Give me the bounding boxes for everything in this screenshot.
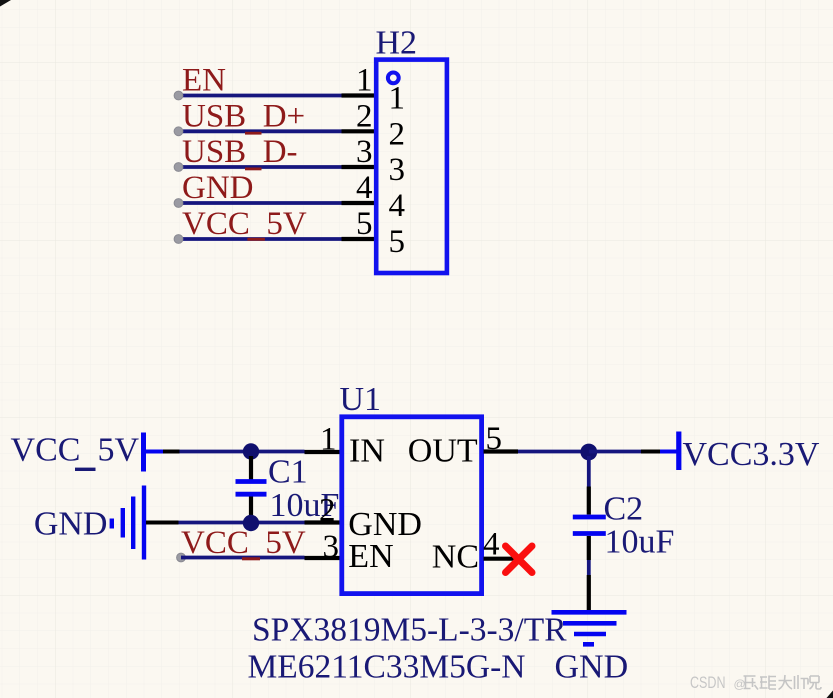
ground symbol bar1 (552, 610, 627, 615)
svg-text:NC: NC (432, 539, 479, 576)
power port GND left bar3 (131, 497, 135, 550)
pin U1-3 stub (305, 556, 342, 560)
watermark hanzi strokes (vector approximation) (744, 675, 822, 690)
no connect X on pin 4 (506, 546, 533, 573)
wire VCC_5V to junction (180, 450, 305, 454)
svg-text:3: 3 (323, 529, 340, 565)
pin 1 indicator circle (388, 73, 399, 84)
ground symbol bar3 (574, 632, 606, 637)
capacitor C2 top lead wire (587, 456, 591, 487)
power port VCC3.3V bar (676, 432, 681, 471)
svg-text:USB D-: USB D- (182, 134, 298, 170)
svg-text:2: 2 (389, 116, 406, 152)
svg-text:2: 2 (356, 98, 373, 134)
svg-text:GND: GND (182, 170, 254, 206)
wire OUT to junction (518, 450, 589, 454)
pin H2-5 stub (342, 237, 377, 241)
node dot USB_D- left (174, 163, 183, 172)
capacitor C2 plate bottom (573, 531, 606, 536)
svg-text:10uF: 10uF (605, 524, 675, 561)
svg-text:C1: C1 (268, 454, 308, 491)
corner wedge top-left (0, 0, 11, 7)
capacitor C1 plate top (236, 479, 267, 484)
svg-text:1: 1 (320, 422, 337, 458)
wire net GND top (178, 201, 342, 205)
ground symbol bar4 (583, 642, 594, 647)
wire EN net (181, 556, 305, 560)
svg-text:VCC 5V: VCC 5V (181, 525, 306, 561)
svg-text:SPX3819M5-L-3-3/TR: SPX3819M5-L-3-3/TR (252, 612, 567, 649)
pin U1-2 stub (305, 520, 342, 524)
pin H2-3 stub (342, 165, 377, 169)
svg-text:C2: C2 (604, 491, 644, 528)
connector H2 body (376, 60, 447, 273)
svg-text:EN: EN (182, 63, 226, 99)
svg-text:4: 4 (389, 188, 406, 224)
power port VCC3.3V stub (660, 450, 679, 454)
wire net USB_D+ (178, 129, 342, 133)
underscore dash VCC_5V top (247, 238, 265, 241)
svg-text:GND: GND (555, 649, 629, 686)
svg-text:ME6211C33M5G-N: ME6211C33M5G-N (248, 649, 526, 686)
svg-text:OUT: OUT (408, 432, 478, 469)
underscore dash USB_D- (245, 168, 262, 171)
capacitor C1 plate bottom (236, 492, 267, 497)
underscore dash USB_D+ (245, 132, 262, 135)
wire net VCC_5V top (178, 237, 342, 241)
capacitor C2 bottom lead black lower (587, 575, 591, 610)
pin U1-1 stub (305, 450, 342, 454)
svg-text:VCC3.3V: VCC3.3V (683, 436, 820, 473)
svg-text:VCC 5V: VCC 5V (182, 206, 307, 242)
capacitor C2 top lead black (587, 487, 591, 515)
svg-text:USB D+: USB D+ (182, 98, 305, 134)
underscore dash VCC_5V port (75, 468, 96, 471)
svg-text:1: 1 (356, 63, 373, 99)
capacitor C2 plate top (573, 515, 606, 520)
pin H2-2 stub (342, 129, 377, 133)
power port VCC_5V bar (141, 433, 146, 472)
svg-text:1: 1 (389, 81, 406, 117)
svg-text:GND: GND (34, 506, 108, 543)
svg-text:3: 3 (356, 134, 373, 170)
svg-text:2: 2 (319, 493, 336, 529)
wire VCC_5V black segment (163, 450, 180, 454)
power port VCC_5V stub (144, 450, 164, 454)
wire black segment before power port (641, 450, 660, 454)
capacitor C2 bottom lead black upper (587, 536, 591, 560)
power port GND left bar1 (110, 519, 114, 529)
pin U1-5 stub (484, 449, 519, 453)
junction node at C1 top (243, 443, 259, 459)
node dot USB_D+ left (174, 127, 183, 136)
svg-text:H2: H2 (376, 25, 418, 62)
wire junction to VCC3.3V (589, 450, 641, 454)
power port GND left bar2 (121, 508, 125, 538)
wire net EN (178, 94, 342, 98)
pin H2-1 stub (342, 93, 377, 97)
node dot EN wire left (177, 553, 186, 562)
svg-text:5: 5 (389, 224, 406, 260)
junction node at C1 bottom (243, 515, 259, 531)
node dot EN left (174, 91, 183, 100)
ground symbol bar2 (563, 621, 617, 626)
svg-text:EN: EN (348, 538, 393, 575)
capacitor C1 bottom lead (249, 497, 253, 518)
capacitor C1 top lead (249, 456, 253, 481)
pin U1-4 stub (484, 557, 518, 561)
wire GND to junction (179, 521, 305, 525)
svg-text:5: 5 (356, 206, 373, 242)
svg-text:IN: IN (349, 432, 385, 469)
wire GND black segment (146, 521, 179, 525)
junction node at C2 top (580, 444, 597, 461)
underscore dash VCC_5V net (EN wire) (242, 557, 260, 560)
capacitor C2 bottom lead wire segment (587, 560, 591, 575)
node dot GND left (174, 199, 183, 208)
power port GND left bar4 (142, 486, 146, 560)
svg-text:3: 3 (389, 152, 406, 188)
pin H2-4 stub (342, 201, 377, 205)
svg-text:U1: U1 (340, 381, 382, 418)
regulator U1 body (342, 417, 482, 594)
node dot VCC_5V left (174, 235, 183, 244)
svg-text:4: 4 (356, 170, 373, 206)
svg-text:CSDN: CSDN (690, 673, 726, 692)
corner cursor triangle (827, 691, 833, 698)
svg-text:VCC 5V: VCC 5V (11, 432, 140, 469)
wire net USB_D- (178, 165, 342, 169)
